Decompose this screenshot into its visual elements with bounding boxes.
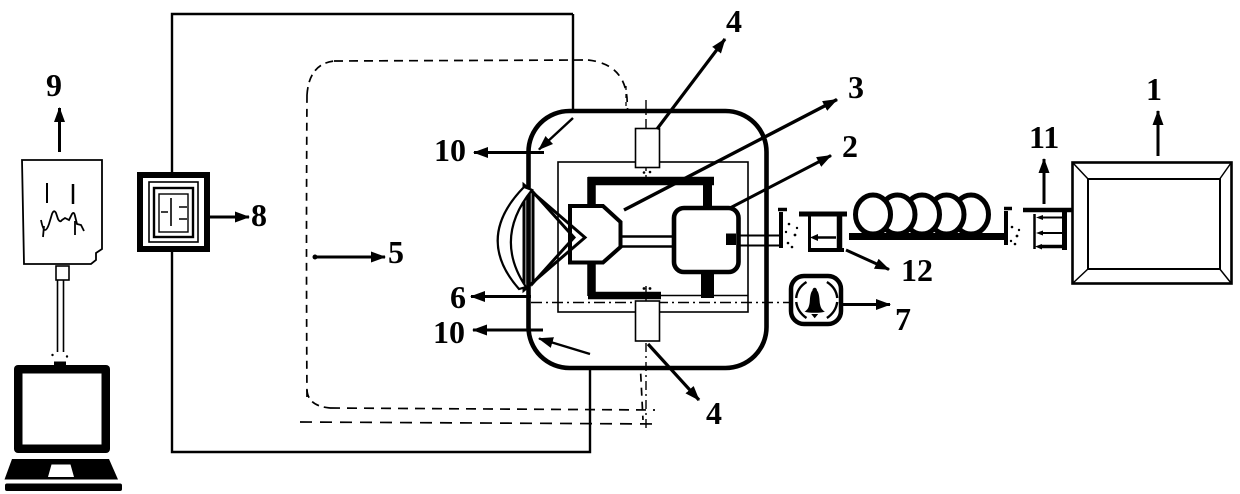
label 3 with arrow [624,100,837,211]
inner thin liner rectangle 6 [558,162,748,312]
label 10 bottom with arrow [473,329,543,332]
alarm button 7 [791,276,841,324]
svg-text:10: 10 [434,132,466,168]
label 2 with arrow [730,156,831,209]
label 8 with arrow [208,216,249,219]
wire: loop right-edge top segment [572,14,574,118]
laptop computer [5,362,123,492]
recorder stem connector [56,266,69,280]
monitor 1 [1073,163,1232,284]
wire arrow into chamber bottom-left corner [539,339,590,355]
svg-text:4: 4 [726,3,742,39]
chamber 10: rounded-square housing [529,111,767,368]
lens crescent [498,187,532,289]
svg-text:11: 11 [1029,119,1059,155]
stator frame: right vertical bar (top) [703,177,712,210]
svg-text:8: 8 [251,197,267,233]
label 10 top with arrow [474,151,544,154]
label 1 with arrow [1157,111,1160,156]
svg-text:10: 10 [433,314,465,350]
stator frame: top bar [588,177,714,186]
sketch dots at port gaps [643,171,652,290]
stem base dots [51,354,68,358]
label 4 bottom with arrow [648,344,699,400]
svg-text:6: 6 [450,279,466,315]
label 9 with arrow [58,108,61,152]
stator frame: bottom thin continuation [661,295,748,297]
label 5 with arrow [315,256,385,259]
axis dash-dot horizontal through chamber bottom [531,302,789,304]
break dots right [1010,226,1020,246]
wire: outer loop rectangle (signal path), left/top/bottom edges [172,14,590,452]
break dots left [785,223,798,249]
dashed enclosure 5: bottom-left corner [307,390,330,408]
label 7 with arrow [842,303,890,306]
svg-text:5: 5 [388,234,404,270]
dashed enclosure 5: left edge [306,95,309,398]
label 6 with arrow [471,295,531,298]
coil rod [849,233,1007,240]
output shaft right of component 2 [738,236,779,246]
axis dash-dot vertical through ports [645,100,647,428]
port rectangle 4 (bottom) [636,301,660,341]
svg-text:2: 2 [842,128,858,164]
stator frame: bottom-right corner block [701,271,714,298]
component 2: inner hub square [726,234,736,246]
right shaft flange [1004,211,1008,245]
recorder 9: box with waveform [22,160,102,264]
svg-text:7: 7 [895,301,911,337]
svg-text:3: 3 [848,69,864,105]
stem to laptop [58,280,64,352]
rotor component 3: chamfered block [570,206,621,263]
stator frame: left vertical bar [587,177,596,296]
label 12 with arrow [846,250,889,270]
label 4 top with arrow [657,39,725,129]
coil loops on rod [856,195,989,234]
sensor 8: nested squares [140,175,207,249]
svg-text:9: 9 [46,67,62,103]
shaft flange left [779,212,783,248]
label 11 with arrow [1043,159,1046,204]
dashed enclosure 5: top edge [334,60,588,61]
stator frame: bottom bar [588,292,661,300]
svg-text:4: 4 [706,395,722,431]
port rectangle 4 (top) [636,129,660,168]
bearing 12 [799,212,847,252]
wire arrow into chamber top-left corner [539,118,573,150]
cone (double triangle outline) [524,185,585,290]
svg-text:12: 12 [901,252,933,288]
svg-text:1: 1 [1146,71,1162,107]
dashed enclosure 5: top-right corner and right edge [588,60,643,420]
shaft between components [620,237,675,247]
bearing 11 [1023,210,1072,250]
component 2: rounded block [674,208,739,272]
dashed enclosure 5: bottom edge (double sketchy lines) [330,408,655,410]
dashed enclosure 5: top-left corner [307,61,334,95]
